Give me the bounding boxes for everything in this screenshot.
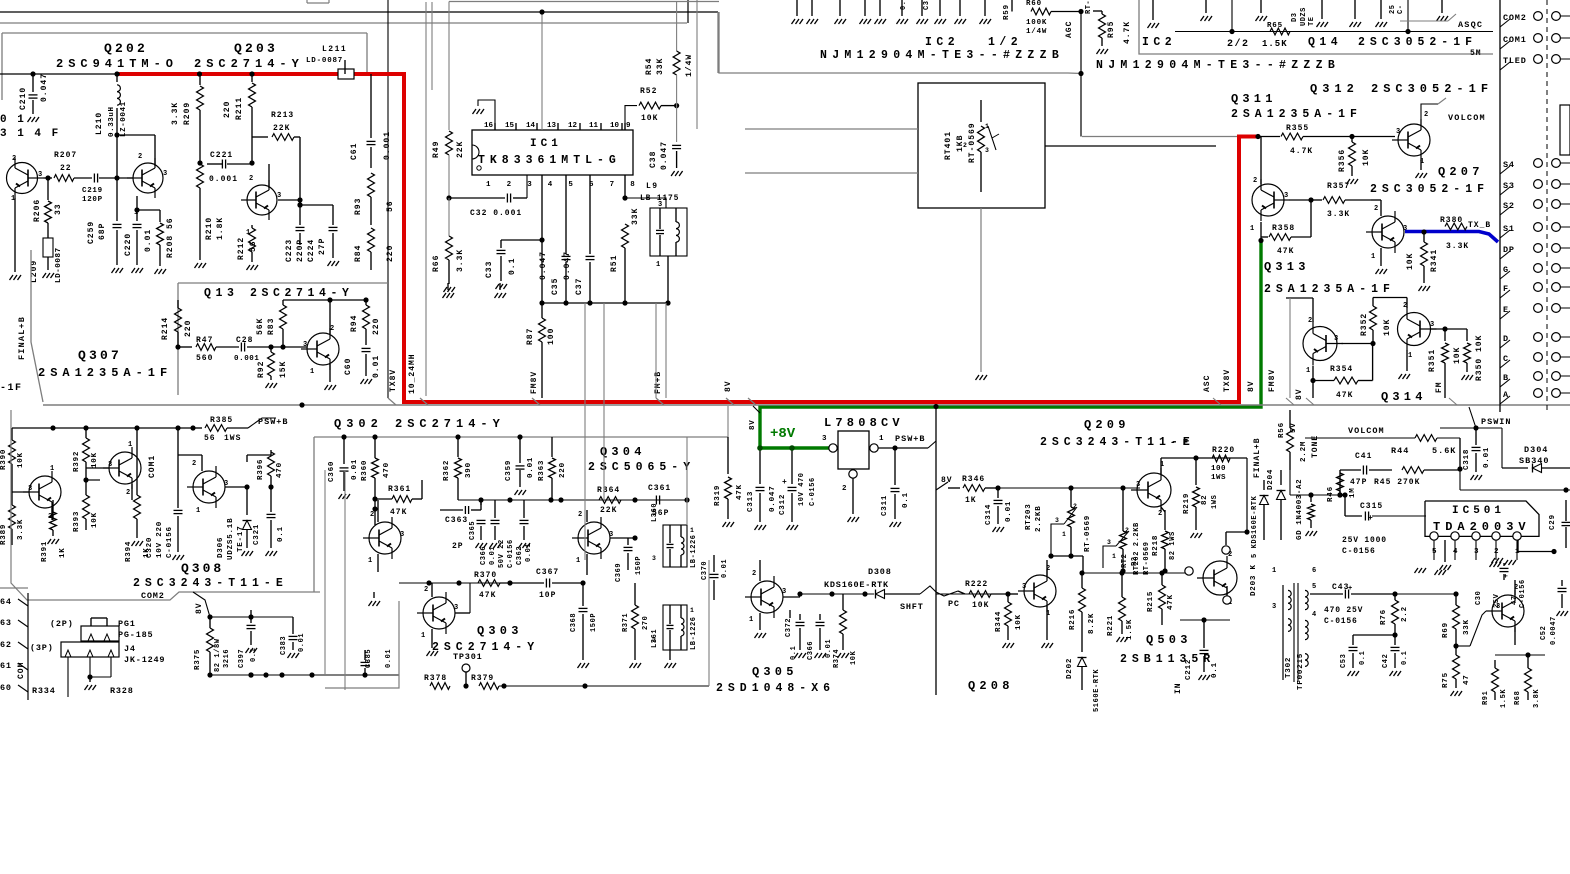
resistor R354 (1313, 344, 1373, 401)
svg-text:R220: R220 (1212, 446, 1235, 455)
boundary main horizontal (43, 404, 1570, 406)
svg-text:0.1: 0.1 (1401, 651, 1409, 665)
label J4 (124, 644, 136, 654)
svg-text:R375: R375 (194, 649, 202, 670)
svg-text:1WS: 1WS (1211, 474, 1226, 482)
svg-text:Q305: Q305 (752, 665, 798, 679)
svg-text:R207: R207 (54, 151, 77, 160)
resistor R76 (1380, 594, 1409, 638)
resistor R394 (125, 428, 151, 562)
inductor L209 (30, 223, 63, 283)
svg-text:RT203: RT203 (1025, 503, 1033, 530)
svg-text:2P: 2P (452, 542, 464, 551)
svg-text:0.001: 0.001 (383, 131, 392, 160)
label 2/2 1.5K (1227, 38, 1288, 50)
svg-text:10K: 10K (1453, 347, 1462, 364)
svg-text:33K: 33K (656, 58, 665, 75)
box left bottom (0, 587, 28, 589)
svg-text:220P: 220P (296, 239, 305, 262)
transistor Q208t (1008, 565, 1056, 648)
svg-text:COM: COM (17, 662, 26, 679)
label C29 (1549, 500, 1570, 548)
svg-text:D304: D304 (1524, 445, 1548, 455)
IC1 pin9 wire (625, 106, 637, 130)
resistor R206 (33, 178, 63, 223)
box RT401 (918, 83, 1045, 208)
svg-text:62: 62 (0, 640, 12, 650)
resistor R378 (424, 674, 469, 689)
svg-text:+: + (1368, 514, 1373, 523)
inductor L210 (95, 74, 128, 138)
label 5M (1470, 49, 1482, 58)
svg-text:D204: D204 (1267, 469, 1275, 490)
wire pin13 drop (539, 9, 544, 130)
svg-text:R341: R341 (1430, 249, 1439, 272)
wire green 8V route (760, 241, 1261, 449)
svg-text:LB-1226: LB-1226 (690, 534, 698, 568)
svg-text:3.3K: 3.3K (456, 249, 465, 272)
svg-text:R221: R221 (1107, 615, 1115, 636)
svg-text:C43: C43 (1332, 583, 1349, 592)
svg-text:2.2KB: 2.2KB (1035, 505, 1043, 532)
svg-text:1: 1 (656, 261, 660, 269)
svg-text:-1F: -1F (0, 383, 23, 394)
svg-text:2.2: 2.2 (1401, 606, 1409, 622)
capacitor C368 (570, 580, 598, 668)
wire IC501 pin1 (1518, 540, 1557, 554)
svg-text:0.001: 0.001 (209, 175, 238, 184)
label 2SA1235A-1F Q311 (1231, 108, 1362, 121)
resistor R211 (223, 74, 255, 166)
capacitor C42 (1382, 635, 1409, 676)
svg-text:NJM12904M-TE3--#ZZZB: NJM12904M-TE3--#ZZZB (820, 49, 1064, 62)
svg-text:R360: R360 (361, 460, 369, 481)
svg-text:C29: C29 (1549, 514, 1557, 530)
svg-text:0.01: 0.01 (527, 457, 535, 478)
svg-text:SHFT: SHFT (900, 602, 924, 612)
svg-text:11: 11 (589, 122, 599, 130)
svg-text:R356: R356 (1338, 149, 1347, 172)
svg-text:R93: R93 (354, 198, 363, 215)
resistor R363 (538, 437, 567, 500)
svg-text:390: 390 (465, 462, 473, 478)
svg-text:R362: R362 (443, 460, 451, 481)
capacitor C365 (469, 500, 487, 548)
IC2 grounds top (807, 0, 947, 24)
svg-text:FM8V: FM8V (530, 371, 539, 394)
wire vertical net x426 (425, 2, 427, 396)
svg-text:1.8K: 1.8K (216, 217, 225, 240)
svg-text:(3P): (3P) (30, 643, 54, 653)
wires into RT401 (745, 129, 1216, 173)
box Q303 corner (325, 601, 399, 688)
svg-text:1: 1 (690, 607, 694, 614)
svg-text:1.5K: 1.5K (1262, 39, 1288, 49)
capacitor C360 (328, 437, 359, 499)
capacitor C397 (238, 610, 258, 678)
label Q307 (78, 348, 122, 363)
svg-text:LD-0087: LD-0087 (306, 57, 343, 65)
svg-text:C366: C366 (807, 641, 815, 660)
svg-text:IC2: IC2 (925, 36, 959, 49)
svg-text:2: 2 (842, 485, 847, 493)
svg-text:2: 2 (1073, 503, 1077, 510)
label C30 cluster (1475, 574, 1527, 608)
transistor Q308t (178, 455, 250, 515)
svg-text:15K: 15K (279, 361, 288, 378)
label COM1 mid (148, 455, 157, 478)
svg-text:2/2: 2/2 (1227, 38, 1250, 50)
svg-text:Q207: Q207 (1438, 165, 1484, 179)
svg-text:S4: S4 (1503, 160, 1515, 170)
svg-text:D: D (1503, 334, 1509, 344)
wire vertical mid x709 (708, 560, 710, 686)
svg-text:R209: R209 (183, 102, 192, 125)
svg-text:47P: 47P (1350, 478, 1367, 487)
svg-text:R68: R68 (1514, 691, 1522, 705)
svg-text:D306: D306 (217, 537, 225, 558)
svg-text:C60: C60 (344, 358, 353, 375)
label Q302 2SC2714-Y (334, 417, 505, 431)
svg-text:IC1: IC1 (530, 138, 562, 150)
svg-text:9: 9 (626, 122, 631, 130)
svg-text:R328: R328 (110, 686, 134, 696)
svg-text:0.: 0. (900, 1, 908, 10)
label RT- (1085, 0, 1093, 14)
svg-text:47K: 47K (1277, 247, 1294, 256)
resistor R87 (526, 303, 556, 398)
wire PSW+B out (878, 441, 936, 451)
svg-text:3.3K: 3.3K (171, 102, 180, 125)
svg-text:1: 1 (749, 616, 753, 624)
svg-text:5: 5 (1312, 583, 1316, 591)
svg-text:TX8V: TX8V (389, 369, 398, 392)
svg-text:2: 2 (1228, 551, 1232, 559)
svg-text:R351: R351 (1428, 349, 1437, 372)
capacitor C321 (253, 487, 285, 556)
svg-text:C321: C321 (253, 524, 261, 545)
svg-text:C366: C366 (480, 546, 488, 565)
resistor R351 (1428, 329, 1462, 398)
svg-text:IC2: IC2 (1142, 36, 1176, 49)
resistor R52 (639, 87, 679, 123)
capacitor C366 (480, 500, 515, 568)
svg-text:L210: L210 (95, 112, 104, 135)
svg-text:6: 6 (1312, 567, 1316, 575)
wire vertical x666 (665, 303, 667, 398)
svg-text:R84: R84 (354, 245, 363, 262)
svg-text:R56: R56 (1278, 422, 1286, 438)
svg-text:0.047: 0.047 (40, 73, 49, 102)
svg-text:C220: C220 (124, 233, 133, 256)
svg-text:0.01: 0.01 (525, 543, 533, 562)
connector right column (1500, 0, 1570, 412)
svg-text:1: 1 (690, 527, 694, 534)
svg-text:25: 25 (1389, 5, 1397, 14)
resistor R371 (622, 583, 650, 668)
svg-text:10K: 10K (1383, 319, 1392, 336)
capacitor C35 (539, 175, 571, 303)
svg-text:Q307: Q307 (78, 348, 122, 363)
transistor Q304t (572, 510, 638, 575)
capacitor C41 (1340, 452, 1392, 495)
svg-text:RT-0569: RT-0569 (1084, 515, 1092, 552)
label Q308 (181, 561, 224, 576)
resistor R341 (1406, 229, 1439, 291)
svg-text:0.047: 0.047 (769, 485, 777, 512)
IC1 top pin stubs (495, 123, 625, 130)
svg-text:Q208: Q208 (968, 679, 1014, 693)
svg-text:D202: D202 (1066, 658, 1074, 679)
svg-text:22K: 22K (273, 124, 290, 133)
resistor R44 (1305, 435, 1460, 456)
svg-text:R361: R361 (388, 485, 411, 494)
transistor Q302t (363, 500, 404, 572)
svg-text:C360: C360 (328, 461, 336, 482)
resistor R68 (1495, 652, 1545, 708)
svg-text:Q209: Q209 (1084, 418, 1130, 432)
wire Q209 junction (936, 593, 998, 595)
svg-text:2SA1235A-1F: 2SA1235A-1F (38, 366, 172, 380)
label VOLCOM mid (1348, 426, 1385, 436)
capacitor C60 (344, 348, 381, 384)
svg-text:C367: C367 (536, 568, 559, 577)
svg-text:R76: R76 (1380, 609, 1388, 625)
svg-text:VOLCOM: VOLCOM (1348, 426, 1385, 436)
svg-text:8.2K: 8.2K (1088, 613, 1096, 634)
svg-text:Q313: Q313 (1264, 260, 1310, 274)
label 2SB1135R (1120, 653, 1215, 666)
IC2b grounds (1148, 0, 1449, 28)
resistor R375 (194, 614, 293, 675)
resistor R75 (1442, 646, 1471, 696)
svg-text:C30: C30 (1475, 591, 1483, 605)
label 8V jog green (749, 406, 760, 430)
svg-text:470: 470 (383, 462, 391, 478)
svg-text:C: C (1503, 354, 1509, 364)
svg-text:+: + (1348, 585, 1352, 593)
inductor L211 (306, 45, 354, 79)
svg-text:UDZS: UDZS (1300, 7, 1308, 26)
svg-text:2SA1235A-1F: 2SA1235A-1F (1264, 283, 1395, 296)
label VOLCOM right (1448, 113, 1486, 123)
svg-text:R75: R75 (1442, 672, 1450, 688)
svg-text:0.1: 0.1 (250, 648, 258, 662)
svg-text:1: 1 (1272, 567, 1276, 575)
svg-text:R206: R206 (33, 199, 42, 222)
svg-text:R374: R374 (833, 649, 841, 668)
svg-text:4.7K: 4.7K (1290, 147, 1313, 156)
svg-text:0.01: 0.01 (721, 559, 729, 578)
svg-text:R65: R65 (1267, 22, 1283, 30)
svg-text:R393: R393 (73, 511, 81, 532)
svg-text:10K: 10K (91, 452, 99, 468)
svg-text:3216: 3216 (223, 649, 231, 668)
capacitor C38 (649, 141, 683, 176)
svg-text:R214: R214 (161, 317, 170, 340)
wire row 573 (1047, 560, 1190, 576)
svg-text:C223: C223 (285, 239, 294, 262)
label 8V bottom (193, 592, 210, 617)
resistor R49 (432, 2, 465, 201)
svg-text:COM2: COM2 (1503, 13, 1527, 23)
resistor R357 (1311, 182, 1371, 219)
trimmer RT203 (1025, 488, 1092, 573)
resistor R93 (354, 173, 395, 225)
svg-text:+8V: +8V (770, 426, 796, 442)
resistor R220 (1211, 446, 1235, 482)
svg-text:+: + (782, 478, 787, 487)
label FM8V (530, 371, 539, 394)
svg-text:C311: C311 (881, 495, 889, 516)
svg-text:1WS: 1WS (224, 434, 241, 443)
svg-text:TLED: TLED (1503, 56, 1527, 66)
svg-text:Q14: Q14 (1308, 36, 1342, 49)
capacitor C221 (207, 151, 250, 184)
svg-text:1: 1 (1306, 367, 1310, 375)
resistor R95 (1093, 11, 1132, 54)
svg-text:C385: C385 (365, 649, 373, 668)
svg-text:IN: IN (1174, 682, 1183, 694)
svg-text:0.1: 0.1 (277, 526, 285, 542)
IC2b rail verticals (1232, 0, 1408, 32)
svg-text:R45 270K: R45 270K (1374, 478, 1420, 487)
svg-text:2: 2 (249, 175, 253, 183)
svg-text:PG-185: PG-185 (118, 630, 153, 640)
capacitor C37 (563, 175, 595, 303)
transistor Q202 (117, 135, 167, 217)
wire FM+B vertical (655, 303, 657, 398)
svg-text:PSWIN: PSWIN (1481, 417, 1512, 427)
svg-text:560: 560 (196, 354, 213, 363)
transistor Q30xa (12, 465, 61, 521)
extra top grounds (792, 0, 992, 24)
svg-text:R210: R210 (205, 217, 214, 240)
IC1 pin16 loop (473, 100, 496, 130)
resistor R346 (948, 475, 1001, 505)
svg-text:64: 64 (0, 597, 12, 607)
wire AGC vertical (1078, 12, 1083, 137)
svg-text:C3: C3 (923, 1, 931, 10)
label GD 1N4003-A2 (1296, 479, 1304, 540)
wire IC1 bottom rail (539, 300, 670, 305)
svg-text:10K: 10K (850, 650, 858, 665)
svg-text:R91: R91 (1482, 691, 1490, 705)
svg-text:C41: C41 (1355, 452, 1372, 461)
svg-text:Q203: Q203 (234, 41, 278, 56)
svg-text:1/4W: 1/4W (1026, 28, 1047, 36)
label 2SA1235A-1F Q313 (1264, 283, 1395, 296)
svg-text:0.01: 0.01 (825, 639, 833, 658)
svg-text:25V 1000: 25V 1000 (1342, 536, 1387, 545)
svg-text:0.01: 0.01 (1005, 501, 1013, 522)
svg-text:C61: C61 (350, 143, 359, 160)
label FM vert (1435, 381, 1444, 393)
svg-text:C368: C368 (570, 613, 578, 632)
svg-text:8V: 8V (724, 380, 733, 392)
svg-text:LZ-0041: LZ-0041 (120, 101, 128, 137)
svg-text:C-0156: C-0156 (1519, 579, 1527, 608)
svg-text:2: 2 (126, 489, 130, 497)
transistor bottom right (1456, 580, 1524, 646)
label D204 (1267, 469, 1275, 490)
svg-text:2: 2 (1424, 111, 1428, 119)
svg-text:C221: C221 (210, 151, 233, 160)
label 8V Q209 (936, 476, 953, 490)
svg-text:R212: R212 (237, 237, 246, 260)
svg-text:R92: R92 (257, 361, 266, 378)
svg-text:2SC3052-1F: 2SC3052-1F (1370, 183, 1489, 196)
resistor R355 (1258, 124, 1395, 156)
svg-text:R363: R363 (538, 460, 546, 481)
svg-text:Q312 2SC3052-1F: Q312 2SC3052-1F (1310, 82, 1493, 96)
svg-text:3.3K: 3.3K (17, 519, 25, 540)
svg-text:0.01: 0.01 (385, 649, 393, 668)
capacitor C366b (807, 614, 833, 660)
resistor R213 (252, 111, 303, 208)
svg-text:R51: R51 (610, 255, 619, 272)
capacitor C210 (19, 73, 49, 122)
label IN (1174, 682, 1183, 694)
inductor L9 (625, 182, 687, 303)
svg-text:R87: R87 (526, 328, 535, 345)
svg-text:1M: 1M (1349, 487, 1357, 498)
zener D306 (217, 487, 253, 560)
resistor R47 (178, 336, 216, 363)
svg-text:C38: C38 (649, 151, 658, 168)
capacitor C369 (615, 538, 643, 582)
svg-text:8: 8 (630, 181, 635, 189)
svg-text:2SC941TM-O: 2SC941TM-O (56, 57, 178, 71)
capacitor C61 (350, 74, 392, 168)
svg-text:1: 1 (196, 507, 200, 515)
wire Q209 collector rail (1161, 455, 1250, 554)
capacitor C372b (785, 610, 793, 637)
label FM+B (654, 371, 663, 394)
label TONE (1311, 435, 1320, 458)
label 10_24MH (408, 353, 417, 394)
svg-text:2SC3243-T11-E: 2SC3243-T11-E (133, 577, 288, 590)
svg-text:5 KDS160E-RTK: 5 KDS160E-RTK (1251, 495, 1259, 558)
svg-text:10V 220: 10V 220 (156, 521, 164, 558)
svg-text:0.01: 0.01 (1483, 447, 1491, 468)
svg-text:TF00215: TF00215 (1297, 653, 1305, 690)
transistor Q313t (1366, 200, 1407, 274)
label Q312 2SC3052-1F (1310, 82, 1493, 96)
label SHFT (900, 602, 924, 612)
svg-text:C320: C320 (146, 537, 154, 558)
transistor Q13 (283, 297, 366, 390)
capacitor C362 (516, 500, 533, 565)
resistor R69 (1442, 594, 1471, 649)
capacitor C320 (146, 428, 184, 560)
capacitor C359 (505, 437, 535, 495)
svg-text:2.2M: 2.2M (1300, 441, 1308, 462)
boundary final (31, 250, 43, 402)
wire top bus 3 (449, 1, 719, 3)
svg-text:1: 1 (1062, 531, 1066, 538)
svg-text:47K: 47K (1167, 594, 1175, 610)
resistor R91 (1482, 660, 1508, 708)
svg-text:2: 2 (424, 586, 428, 594)
resistor R219 (1183, 458, 1219, 538)
resistor R214 (161, 300, 193, 350)
svg-text:2: 2 (963, 142, 967, 149)
diode D203b (1251, 480, 1269, 558)
resistor R212 (237, 225, 258, 270)
svg-text:3: 3 (1334, 335, 1338, 343)
svg-text:PC: PC (948, 599, 960, 609)
